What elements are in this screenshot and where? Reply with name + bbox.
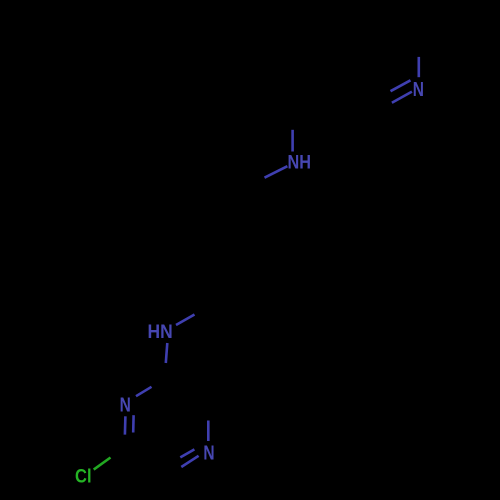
atom label: chlorine Cl	[75, 467, 92, 488]
bond: stub above amine NH (clipped CH2 bond)	[291, 130, 294, 152]
atom label: secondary amine NH	[288, 152, 312, 173]
bond: HN to pyrazine C2 (clipped)	[166, 343, 168, 363]
svg-text:N: N	[203, 442, 214, 464]
atom label: pyrazine nitrogen N4 (right)	[203, 442, 214, 464]
bond: Cl-C6 bond (green)	[94, 458, 111, 470]
svg-text:N: N	[120, 395, 131, 417]
bond: pyrazine N1=C6 double bond, inner line	[132, 415, 135, 432]
svg-text:HN: HN	[148, 322, 173, 343]
bond: pyrazine N1=C6 double bond, main line	[124, 416, 127, 434]
bond: stub from NH going down-left (clipped chain bond)	[265, 166, 288, 178]
bond: pyrazine C5=N4 double bond, inner line	[180, 449, 194, 457]
bond: pyridine C=N double bond, inner line	[391, 80, 411, 91]
bond: pyridine C=N double bond, main line	[392, 92, 412, 103]
svg-text:NH: NH	[288, 152, 312, 173]
svg-text:Cl: Cl	[75, 467, 92, 488]
atom label: secondary amine HN	[148, 322, 173, 343]
bond: stub above pyridine N (clipped ring bond)	[417, 57, 420, 77]
atom label: pyrazine nitrogen N1 (left)	[120, 395, 131, 417]
bond: pyrazine C3-N4 stub (vertical)	[207, 421, 210, 442]
atom label: pyridine nitrogen N	[413, 79, 424, 101]
svg-text:N: N	[413, 79, 424, 101]
bond: stub from HN going up-right (clipped chain bond)	[176, 315, 195, 326]
bond: pyrazine C2-N1 segment (clipped)	[136, 387, 152, 396]
bond: pyrazine C5=N4 double bond, main line	[181, 456, 198, 467]
